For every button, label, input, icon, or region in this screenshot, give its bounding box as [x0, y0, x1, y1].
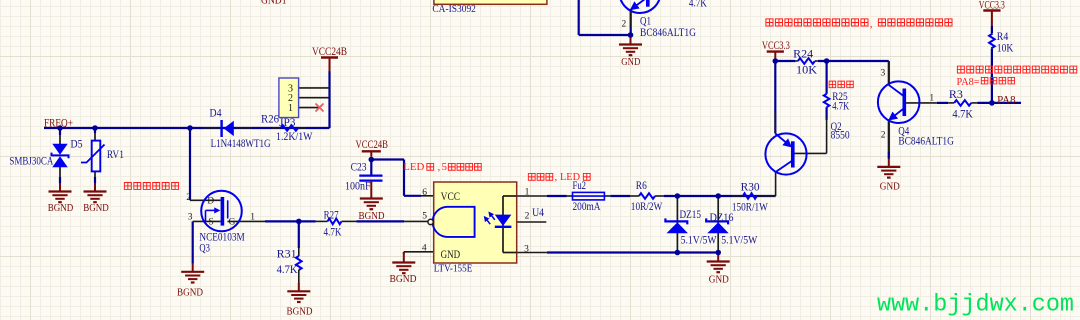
svg-text:VCC3.3: VCC3.3: [762, 40, 790, 52]
svg-text:R24: R24: [793, 47, 813, 61]
svg-text:4.7K: 4.7K: [832, 98, 849, 112]
svg-text:BGND: BGND: [287, 306, 313, 318]
svg-text:BGND: BGND: [359, 210, 385, 222]
svg-text:2: 2: [186, 193, 191, 203]
svg-text:,: ,: [438, 161, 441, 173]
svg-text:LED: LED: [403, 161, 424, 173]
svg-text:S: S: [209, 218, 214, 228]
svg-text:R31: R31: [277, 246, 297, 260]
svg-text:LTV-155E: LTV-155E: [434, 263, 473, 275]
svg-text:GND: GND: [709, 273, 729, 285]
svg-text:R30: R30: [741, 180, 760, 194]
svg-text:1: 1: [288, 103, 293, 114]
svg-text:VCC3.3: VCC3.3: [979, 0, 1005, 12]
svg-text:GND: GND: [441, 247, 461, 261]
svg-text:R27: R27: [324, 207, 339, 221]
svg-text:4.7K: 4.7K: [324, 224, 342, 238]
svg-text:10K: 10K: [796, 63, 817, 77]
svg-text:BC846ALT1G: BC846ALT1G: [898, 134, 954, 148]
svg-text:JP3: JP3: [279, 115, 296, 129]
svg-text:,: ,: [555, 171, 558, 183]
svg-text:GND: GND: [880, 181, 900, 193]
svg-text:1: 1: [929, 93, 934, 103]
svg-text:SMBJ30CA: SMBJ30CA: [9, 153, 53, 167]
svg-text:2: 2: [525, 211, 530, 221]
svg-text:100nF: 100nF: [345, 178, 371, 192]
svg-text:PA8: PA8: [997, 93, 1016, 107]
svg-text:200mA: 200mA: [573, 201, 602, 213]
svg-text:R3: R3: [949, 87, 963, 101]
svg-text:BGND: BGND: [390, 273, 417, 285]
svg-text:3: 3: [188, 212, 193, 222]
svg-text:10R/2W: 10R/2W: [631, 201, 663, 213]
svg-text:G: G: [229, 218, 236, 228]
svg-text:,: ,: [870, 18, 873, 30]
svg-text:FREQ+: FREQ+: [44, 117, 73, 129]
svg-text:RV1: RV1: [107, 147, 124, 161]
svg-text:PA8=: PA8=: [957, 76, 980, 88]
svg-text:Q3: Q3: [199, 241, 210, 255]
svg-text:4.7K: 4.7K: [952, 107, 973, 121]
svg-text:5: 5: [422, 211, 427, 221]
svg-text:BGND: BGND: [177, 286, 203, 298]
svg-text:BC846ALT1G: BC846ALT1G: [640, 25, 696, 39]
svg-text:5.1V/5W: 5.1V/5W: [681, 235, 717, 247]
svg-text:D: D: [207, 196, 214, 206]
svg-text:1: 1: [525, 187, 530, 197]
svg-text:DZ15: DZ15: [680, 209, 702, 221]
svg-text:8550: 8550: [831, 128, 850, 142]
svg-text:U4: U4: [532, 205, 544, 219]
svg-text:R26: R26: [261, 111, 279, 125]
svg-text:1.2K/1W: 1.2K/1W: [276, 129, 313, 143]
svg-text:2: 2: [622, 20, 627, 30]
svg-text:3: 3: [881, 68, 886, 78]
svg-text:BGND: BGND: [48, 202, 74, 214]
svg-text:D5: D5: [71, 136, 83, 150]
svg-text:5: 5: [442, 161, 448, 173]
svg-text:GND: GND: [621, 56, 640, 68]
svg-text:4.7K: 4.7K: [277, 262, 298, 276]
svg-text:5.1V/5W: 5.1V/5W: [721, 235, 757, 247]
svg-text:C23: C23: [351, 160, 367, 174]
svg-text:1: 1: [250, 212, 255, 222]
svg-text:VCC24B: VCC24B: [312, 46, 347, 58]
svg-text:2: 2: [881, 130, 886, 140]
svg-text:4: 4: [422, 243, 427, 253]
svg-text:LED: LED: [560, 171, 580, 183]
svg-text:www.bjjdwx.com: www.bjjdwx.com: [877, 292, 1074, 319]
svg-text:3: 3: [524, 245, 529, 255]
svg-text:150R/1W: 150R/1W: [732, 199, 769, 213]
svg-text:BGND: BGND: [83, 202, 109, 214]
svg-text:L1N4148WT1G: L1N4148WT1G: [211, 136, 271, 150]
svg-text:10K: 10K: [997, 41, 1014, 55]
svg-text:R6: R6: [636, 180, 647, 192]
svg-text:GND1: GND1: [261, 0, 287, 7]
svg-text:6: 6: [422, 188, 427, 198]
svg-text:VCC: VCC: [441, 189, 461, 203]
svg-text:4.7K: 4.7K: [689, 0, 707, 10]
svg-text:VCC24B: VCC24B: [356, 139, 389, 151]
svg-text:DZ16: DZ16: [710, 212, 734, 224]
svg-text:D4: D4: [210, 106, 222, 120]
svg-text:CA-IS3092: CA-IS3092: [432, 3, 476, 15]
